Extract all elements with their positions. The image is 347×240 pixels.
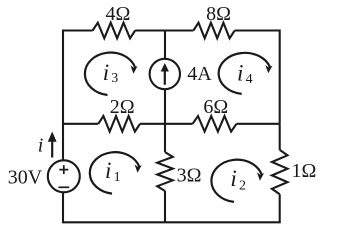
wire: centre column (current source to middle rail) [164, 89, 166, 124]
wire: centre column (middle rail to 3Ω) [164, 124, 166, 152]
wire: bottom rail [62, 221, 281, 223]
wire: middle rail right segment [237, 123, 280, 125]
wire: middle rail centre segment [140, 123, 193, 125]
svg-text:4Ω: 4Ω [106, 3, 131, 25]
voltage source plus sign [59, 165, 68, 174]
wire: top rail left segment [63, 29, 93, 31]
wire: right rail upper [279, 30, 281, 124]
resistor 1Ω body [272, 150, 288, 194]
mesh current loop i2 arrowhead [257, 172, 264, 180]
svg-text:8Ω: 8Ω [206, 3, 231, 25]
wire: top rail right segment [235, 29, 280, 31]
svg-text:i2: i2 [230, 166, 246, 194]
wire: right rail (middle to 1Ω) [279, 124, 281, 150]
svg-text:30V: 30V [8, 167, 43, 189]
resistor 2Ω body [98, 116, 140, 132]
resistor 3Ω body [157, 152, 173, 191]
current source I1 4A circle [150, 59, 180, 89]
wire: left rail upper (top to voltage source) [62, 30, 64, 161]
mesh current loop i4 arrowhead [265, 65, 272, 73]
current arrow i (beside left rail) [51, 140, 53, 158]
svg-text:1Ω: 1Ω [292, 160, 317, 182]
wire: centre column (3Ω to bottom rail) [164, 191, 166, 222]
voltage source V1 30V circle [48, 160, 80, 192]
svg-text:4A: 4A [187, 63, 212, 85]
wire: middle rail left segment [63, 123, 98, 125]
svg-text:2Ω: 2Ω [110, 96, 135, 118]
wire: centre column top (to current source) [164, 30, 166, 59]
wire: left rail lower (voltage source to bottom) [62, 192, 64, 222]
svg-text:i4: i4 [237, 61, 253, 87]
svg-text:3Ω: 3Ω [177, 165, 202, 187]
voltage source minus sign [58, 186, 69, 188]
svg-text:i3: i3 [103, 60, 119, 86]
mesh current loop i1 arc [90, 152, 140, 193]
resistor 8Ω body [193, 23, 234, 39]
svg-text:6Ω: 6Ω [203, 96, 228, 118]
mesh current loop i3 arrowhead [131, 65, 138, 73]
wire: right rail lower [279, 194, 281, 222]
current source arrow (up) [164, 70, 166, 85]
mesh current loop i4 arc [219, 53, 270, 94]
mesh current loop i3 arc [85, 53, 135, 95]
mesh current loop i1 arrowhead [135, 165, 142, 173]
resistor 6Ω body [193, 116, 237, 132]
svg-text:i: i [38, 135, 44, 157]
resistor 4Ω body [93, 23, 136, 39]
svg-text:i1: i1 [105, 158, 121, 185]
wire: top rail middle segment [135, 29, 193, 31]
mesh current loop i2 arc [211, 160, 261, 202]
